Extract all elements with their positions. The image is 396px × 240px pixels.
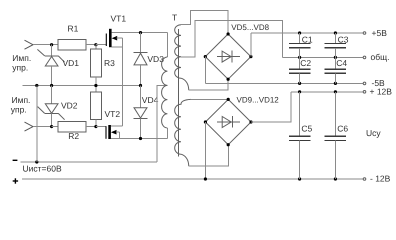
node -5V C4	[334, 82, 337, 85]
wire bridge2 minus to -12V rail	[204, 122, 206, 179]
svg-text:C6: C6	[337, 123, 348, 133]
svg-text:VT2: VT2	[105, 109, 121, 119]
capacitor C3	[325, 33, 347, 57]
resistor R4 (unlabelled)	[90, 86, 101, 127]
svg-text:- 12В: - 12В	[370, 174, 391, 184]
svg-text:упр.: упр.	[11, 104, 27, 114]
svg-text:R2: R2	[68, 131, 79, 141]
node source rail VD4	[139, 137, 142, 140]
node -12V C5	[298, 177, 301, 180]
input arrow 2 (Имп. упр.)	[25, 122, 52, 131]
wire +12V rail	[291, 91, 363, 93]
svg-text:C3: C3	[338, 34, 349, 44]
node on top rail	[139, 31, 142, 34]
capacitor C1	[289, 33, 311, 57]
transformer secondary winding (lower)	[175, 99, 229, 166]
svg-text:VD9...VD12: VD9...VD12	[237, 96, 280, 105]
label Имп. упр. (input 1)	[12, 53, 31, 72]
node: input2 junction	[50, 125, 53, 128]
terminal -5V	[363, 82, 366, 85]
wire bridge1 minus to -5V rail	[204, 57, 206, 84]
node minus rail	[35, 160, 38, 163]
node -5V C2	[298, 82, 301, 85]
wire VT1 source to VT2 drain	[122, 38, 124, 126]
capacitor C4	[325, 57, 347, 83]
wire VT2 source rail	[111, 138, 167, 140]
svg-text:упр.: упр.	[12, 62, 28, 72]
node bridge2 minus on bottom rail	[204, 177, 207, 180]
zener VD2	[38, 86, 65, 127]
minus sign	[13, 159, 18, 161]
input arrow 1 (Имп. упр.)	[25, 40, 59, 49]
svg-text:VD2: VD2	[61, 100, 78, 110]
transformer T core	[178, 29, 180, 157]
plus sign	[13, 178, 18, 183]
bridge rectifier VD9...VD12	[204, 98, 253, 146]
svg-text:+5В: +5В	[372, 28, 388, 38]
wire bridge2 plus to +12V rail	[251, 92, 291, 122]
node +5V C1	[298, 31, 301, 34]
svg-text:VT1: VT1	[111, 14, 127, 24]
svg-text:R3: R3	[104, 58, 115, 68]
svg-text:VD1: VD1	[63, 58, 80, 68]
wire top rail (VT1 drain to primary)	[112, 32, 168, 34]
node +12V C5	[298, 90, 301, 93]
svg-text:+ 12В: + 12В	[370, 87, 393, 97]
svg-text:R1: R1	[68, 24, 79, 34]
label Имп. упр. (input 2)	[11, 95, 31, 114]
wire primary bottom lead	[166, 128, 168, 139]
svg-text:VD4: VD4	[142, 95, 159, 105]
bridge rectifier VD5...VD8	[204, 32, 253, 80]
capacitor C5	[289, 92, 311, 179]
resistor R3	[90, 45, 101, 86]
diode VD3	[134, 33, 148, 86]
zener VD1	[37, 45, 64, 86]
svg-text:T: T	[172, 13, 177, 23]
node common C1	[298, 56, 301, 59]
wire gate VT1	[96, 44, 106, 46]
svg-text:C4: C4	[336, 58, 347, 68]
node: VT2 gate junction	[94, 125, 97, 128]
wire +5V rail	[251, 32, 363, 34]
node: input1 junction	[50, 43, 53, 46]
resistor R1	[58, 40, 96, 51]
wire common rail	[282, 56, 363, 58]
terminal -12V	[363, 178, 366, 181]
resistor R2	[52, 122, 96, 133]
terminal +12V	[363, 91, 366, 94]
node: VT1 gate junction	[94, 43, 97, 46]
node +5V C3	[334, 31, 337, 34]
diode VD4	[134, 86, 148, 139]
transformer secondary winding (upper)	[175, 10, 229, 90]
wire minus rail (Uист)	[21, 161, 157, 163]
capacitor C6	[325, 92, 347, 179]
wire primary centre tap to minus rail	[157, 85, 168, 162]
svg-text:C2: C2	[300, 58, 311, 68]
wire -5V rail	[205, 82, 363, 84]
capacitor C2	[289, 57, 311, 83]
svg-text:VD5...VD8: VD5...VD8	[231, 23, 269, 32]
wire mid rail	[23, 85, 141, 87]
svg-text:Uсу: Uсу	[366, 128, 381, 138]
wire mid rail down to minus rail	[36, 86, 38, 163]
node mid rail R3/R4	[94, 84, 97, 87]
wire gate VT2	[96, 126, 106, 128]
svg-text:общ.: общ.	[371, 52, 390, 62]
wire bottom rail (plus / -12V)	[22, 178, 363, 180]
node mid rail x37	[35, 84, 38, 87]
svg-text:C1: C1	[302, 34, 313, 44]
wire secondary tap to common	[181, 21, 282, 58]
node mid rail VD3/VD4	[139, 84, 142, 87]
svg-text:C5: C5	[301, 123, 312, 133]
node common C3	[334, 56, 337, 59]
transformer primary winding	[162, 33, 168, 128]
terminal +5V	[363, 32, 366, 35]
wire bridge1 plus to +5V rail	[250, 33, 252, 57]
terminal common	[363, 56, 366, 59]
transistor VT2 (MOSFET)	[106, 125, 123, 139]
svg-text:Uист=60В: Uист=60В	[23, 164, 62, 174]
node -12V C6	[334, 177, 337, 180]
node +12V C6	[334, 90, 337, 93]
transistor VT1 (MOSFET)	[106, 29, 122, 47]
node mid rail VD1/VD2	[50, 84, 53, 87]
